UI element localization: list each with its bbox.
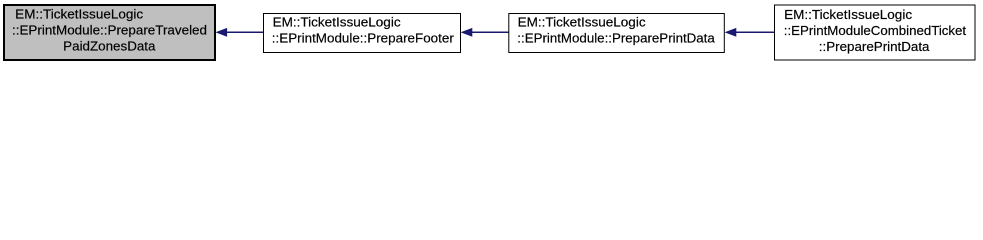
- edge arrow PreparePrintData -> PrepareFooter: [462, 29, 509, 36]
- svg-text:::PreparePrintData: ::PreparePrintData: [819, 39, 930, 54]
- svg-text:::EPrintModule::PrepareTravele: ::EPrintModule::PrepareTraveled: [12, 23, 207, 38]
- svg-text:EM::TicketIssueLogic: EM::TicketIssueLogic: [784, 7, 913, 22]
- svg-text:EM::TicketIssueLogic: EM::TicketIssueLogic: [273, 15, 402, 30]
- node box EM::TicketIssueLogic::EPrintModuleCombinedTicket::PreparePrintData: [775, 5, 976, 60]
- svg-text:::EPrintModuleCombinedTicket: ::EPrintModuleCombinedTicket: [784, 23, 967, 38]
- svg-text:::EPrintModule::PrepareFooter: ::EPrintModule::PrepareFooter: [272, 31, 455, 46]
- edge arrow EPrintModuleCombinedTicket::PreparePrintData -> PreparePrintData: [726, 29, 774, 36]
- svg-text:EM::TicketIssueLogic: EM::TicketIssueLogic: [15, 7, 144, 22]
- svg-text:::EPrintModule::PreparePrintDa: ::EPrintModule::PreparePrintData: [517, 31, 715, 46]
- node box EM::TicketIssueLogic::EPrintModule::PrepareTraveledPaidZonesData (current node, grey fill): [4, 5, 215, 60]
- svg-text:EM::TicketIssueLogic: EM::TicketIssueLogic: [518, 15, 647, 30]
- node box EM::TicketIssueLogic::EPrintModule::PreparePrintData: [509, 14, 725, 53]
- edge arrow PrepareFooter -> PrepareTraveledPaidZonesData: [217, 29, 263, 36]
- svg-text:PaidZonesData: PaidZonesData: [63, 39, 156, 54]
- node box EM::TicketIssueLogic::EPrintModule::PrepareFooter: [264, 14, 461, 53]
